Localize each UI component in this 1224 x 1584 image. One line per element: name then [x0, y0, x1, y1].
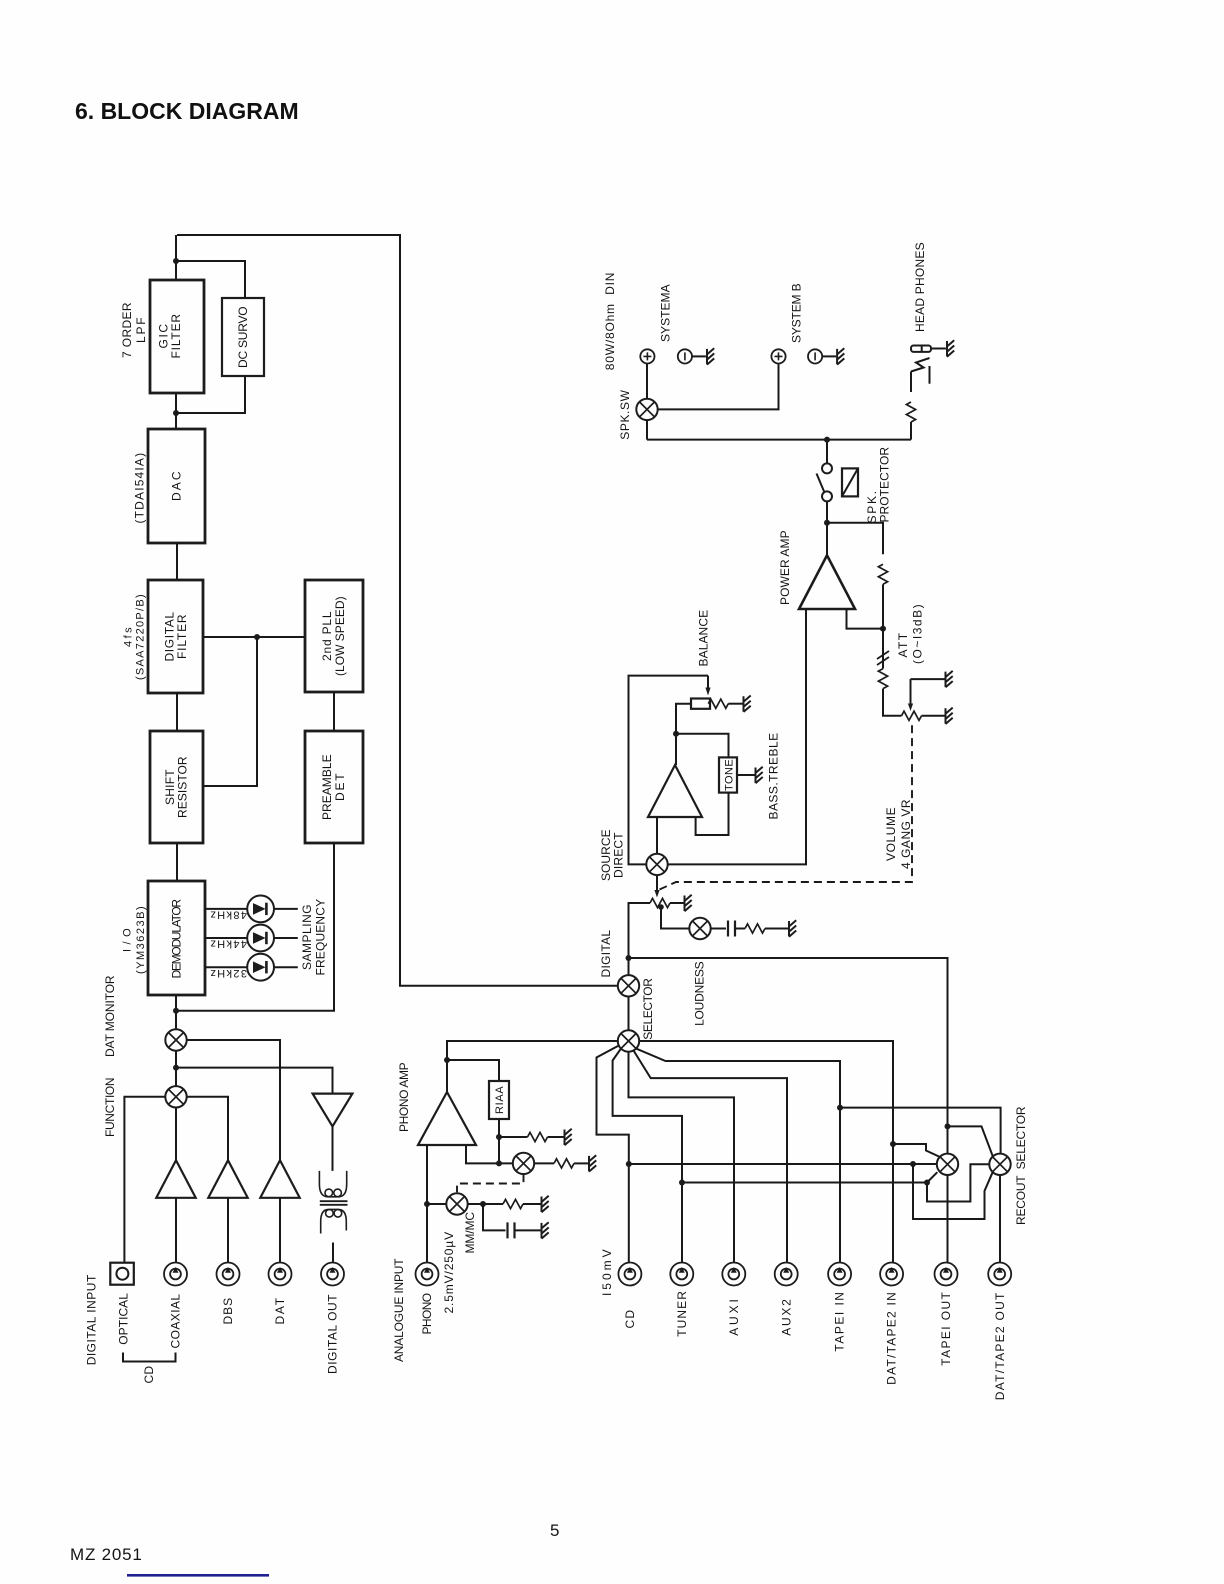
- node relay tap: [824, 437, 830, 443]
- wire 2nd PLL to PREAMBLE DET: [333, 692, 335, 731]
- resistor feedback: [878, 564, 887, 584]
- wire SHIFT RESISTOR to DEMODULATOR: [176, 843, 178, 881]
- wire resistor to speaker bus: [910, 422, 912, 440]
- wire phono amp feedback bottom: [466, 1145, 513, 1163]
- svg-text:OPTICAL: OPTICAL: [116, 1293, 130, 1345]
- wire selector to CD: [597, 1046, 629, 1263]
- ground ATT wiper: [946, 671, 953, 687]
- dashed volume gang link: [660, 725, 913, 889]
- arrow volume wiper: [654, 890, 659, 898]
- ground balance: [744, 696, 751, 712]
- node cd recout tap: [626, 1161, 632, 1167]
- svg-text:80W/8Ohm DIN: 80W/8Ohm DIN: [603, 272, 617, 370]
- svg-text:TAPEI OUT: TAPEI OUT: [939, 1291, 953, 1365]
- jack COAXIAL: [164, 1263, 187, 1286]
- svg-text:BASS.TREBLE: BASS.TREBLE: [767, 733, 781, 820]
- svg-text:CD: CD: [142, 1366, 156, 1384]
- wire balance to tone amp: [676, 704, 691, 765]
- ground ATT pot: [946, 708, 953, 724]
- svg-text:DIGITAL INPUT: DIGITAL INPUT: [84, 1274, 98, 1365]
- blue rule: [127, 1574, 269, 1577]
- ground headphone: [947, 340, 954, 356]
- wire PREAMBLE DET to demodulator node: [176, 843, 334, 1011]
- potentiometer BALANCE body: [691, 699, 710, 709]
- svg-text:DIRECT: DIRECT: [612, 832, 626, 878]
- svg-text:PREAMBLE: PREAMBLE: [320, 754, 334, 820]
- svg-text:4 GANG VR: 4 GANG VR: [899, 799, 913, 869]
- node feedback junction: [496, 1160, 502, 1166]
- svg-text:FILTER: FILTER: [169, 314, 183, 359]
- wire source direct to balance: [629, 676, 709, 865]
- resistor ATT series: [878, 669, 887, 689]
- box DEMODULATOR I/O (YM3623B): [148, 881, 205, 995]
- resistor headphone: [906, 402, 915, 422]
- jack AUX1: [722, 1263, 745, 1286]
- wire tone amp to source direct: [656, 817, 658, 854]
- ground tone: [756, 767, 763, 783]
- wire DIGITAL mixer to SELECTOR: [628, 997, 630, 1031]
- svg-text:RESISTOR: RESISTOR: [176, 756, 190, 818]
- wire tap to RIAA: [447, 1060, 499, 1081]
- jack TAPE1 OUT: [935, 1263, 958, 1286]
- wire GIC FILTER to DAC: [175, 393, 177, 429]
- jack AUX2: [775, 1263, 798, 1286]
- ground volume pot: [685, 895, 692, 911]
- wire contact to resistor: [910, 372, 912, 393]
- node tone box tap: [673, 731, 679, 737]
- terminal SYSTEM A minus: [678, 349, 692, 363]
- svg-text:6. BLOCK DIAGRAM: 6. BLOCK DIAGRAM: [75, 98, 299, 124]
- svg-text:44kHz: 44kHz: [210, 938, 247, 950]
- jack DIGITAL OUT: [321, 1263, 344, 1286]
- box DC SURVO: [222, 298, 264, 376]
- svg-text:2.5mV/250µV: 2.5mV/250µV: [442, 1232, 456, 1314]
- potentiometer BALANCE track: [708, 699, 728, 708]
- wire COAXIAL amp to jack: [175, 1198, 177, 1263]
- svg-text:FUNCTION: FUNCTION: [103, 1077, 117, 1137]
- wire spk.sw down to bus: [646, 420, 648, 440]
- jack DAT/TAPE2 OUT: [988, 1263, 1011, 1286]
- svg-text:5: 5: [550, 1521, 560, 1540]
- svg-text:COAXIAL: COAXIAL: [169, 1294, 183, 1349]
- potentiometer VOLUME track: [650, 898, 670, 907]
- jack PHONO: [416, 1263, 439, 1286]
- svg-text:4fs: 4fs: [123, 627, 135, 647]
- wire to digital-out buffer: [176, 1068, 333, 1094]
- jack DAT: [269, 1263, 292, 1286]
- jack DBS: [217, 1263, 240, 1286]
- mixer DAT MONITOR switch: [165, 1029, 186, 1050]
- wire tap to capacitor: [483, 1204, 506, 1230]
- wire plug to ground: [931, 348, 946, 350]
- mixer SPK.SW: [636, 399, 657, 420]
- node loudness tap: [658, 904, 664, 910]
- connector OPTICAL (square): [110, 1263, 134, 1285]
- headphone jack plug: [911, 346, 931, 352]
- mixer FUNCTION switch: [165, 1086, 186, 1107]
- jack TAPE1 IN: [828, 1263, 851, 1286]
- box PREAMBLE DET: [305, 731, 363, 843]
- amp DIGITAL OUT buffer (inverting orientation): [313, 1094, 353, 1127]
- svg-text:(YM3623B): (YM3623B): [135, 906, 147, 974]
- ground system A: [707, 348, 714, 364]
- svg-text:PROTECTOR: PROTECTOR: [877, 447, 891, 523]
- svg-text:SELECTOR: SELECTOR: [641, 978, 655, 1040]
- wire LED 48kHz: [205, 908, 298, 910]
- svg-text:DAT/TAPE2 IN: DAT/TAPE2 IN: [885, 1292, 899, 1385]
- wire FUNCTION to DBS amp: [187, 1097, 228, 1161]
- arrow balance wiper: [707, 676, 709, 689]
- resistor RIAA feedback: [528, 1132, 548, 1141]
- mixer SELECTOR: [618, 1030, 639, 1051]
- wire cd bypass to mixer2: [913, 1164, 993, 1219]
- wire relay to speaker line: [826, 440, 828, 464]
- node DC-servo tap top: [173, 258, 179, 264]
- wire power amp output up: [826, 502, 828, 556]
- svg-text:(SAA7220P/B): (SAA7220P/B): [135, 594, 147, 680]
- box GIC FILTER (7 order LPF): [150, 280, 204, 393]
- headphone spring contact: [911, 358, 930, 372]
- wire cd tap to recout mixer1: [629, 1163, 937, 1165]
- svg-text:PHONO AMP: PHONO AMP: [397, 1062, 411, 1132]
- wire TONE to ground: [737, 774, 755, 776]
- wire selector to DAT/TAPE2 IN: [639, 1041, 893, 1262]
- wire resistor to ground: [765, 928, 788, 930]
- svg-text:FILTER: FILTER: [175, 614, 189, 659]
- svg-text:TONE: TONE: [723, 759, 735, 791]
- jack CD: [618, 1263, 641, 1286]
- svg-text:DIGITAL: DIGITAL: [599, 930, 613, 978]
- bracket CD group: [123, 1353, 176, 1362]
- box RIAA: [489, 1081, 509, 1119]
- amp DAT input buffer: [260, 1160, 299, 1198]
- node cd bypass tap: [910, 1161, 916, 1167]
- wire SOURCE DIRECT mixer to volume wiper: [656, 875, 658, 891]
- svg-text:LPF: LPF: [134, 317, 148, 343]
- node demodulator output junction: [173, 1008, 179, 1014]
- svg-text:DEMODULATOR: DEMODULATOR: [170, 899, 184, 979]
- mixer LOUDNESS: [689, 918, 710, 939]
- svg-text:DC SURVO: DC SURVO: [236, 306, 250, 368]
- wire A minus to ground: [692, 355, 706, 357]
- svg-text:(O~I3dB): (O~I3dB): [911, 604, 925, 664]
- ATT variable marks: [877, 651, 889, 665]
- amp POWER AMP: [799, 555, 855, 609]
- wire DBS amp to jack: [227, 1198, 229, 1263]
- wire mixer1 to TAPE1 OUT jack: [947, 1175, 949, 1262]
- wire to DC SURVO input: [176, 261, 245, 298]
- wire to ATT resistor: [882, 629, 884, 669]
- wire DAT MONITOR to FUNCTION: [175, 1051, 177, 1086]
- jack TUNER: [670, 1263, 693, 1286]
- wire tuner tap diagonal to mixer1: [927, 1172, 937, 1182]
- ground phono capacitor: [542, 1222, 549, 1238]
- mixer DIGITAL source: [618, 975, 639, 996]
- node selector line tap at recout: [890, 1141, 896, 1147]
- svg-text:7 ORDER: 7 ORDER: [120, 302, 134, 358]
- svg-text:DAT/TAPE2 OUT: DAT/TAPE2 OUT: [993, 1292, 1007, 1400]
- svg-text:LOUDNESS: LOUDNESS: [693, 961, 707, 1026]
- svg-text:SYSTEM B: SYSTEM B: [790, 283, 804, 343]
- wire DAT amp to jack: [279, 1198, 281, 1263]
- node tuner bypass tap: [924, 1180, 930, 1186]
- wire tap to LOUDNESS mixer: [661, 905, 690, 929]
- wire selector to TUNER: [613, 1049, 682, 1263]
- ground gain set: [589, 1155, 596, 1171]
- svg-text:CD: CD: [623, 1310, 637, 1329]
- wire balance to ground: [728, 703, 742, 705]
- wire to feedback resistor: [499, 1136, 528, 1138]
- wire top feedback loop to DIGITAL mixer: [177, 235, 617, 986]
- box DIGITAL FILTER (SAA7220P/B): [148, 580, 203, 693]
- node digital rec tap: [626, 955, 632, 961]
- wire DEMODULATOR output: [175, 995, 177, 1029]
- wire capacitor to resistor: [735, 928, 745, 930]
- wire GIC FILTER top: [175, 235, 177, 280]
- wire RIAA down: [498, 1119, 500, 1163]
- potentiometer ATT track: [902, 711, 922, 720]
- svg-text:SPK.SW: SPK.SW: [618, 389, 632, 439]
- wire pot to ground: [670, 902, 684, 904]
- wire upper tap to mixer2: [948, 1126, 993, 1156]
- node recout mixer2 upper tap: [945, 1123, 951, 1129]
- wire MM/MC mixer to load: [468, 1203, 503, 1205]
- wire selector to TAPE1 IN: [636, 1049, 840, 1263]
- wire mixer2 to DAT/TAPE2 OUT jack: [999, 1175, 1001, 1262]
- wire PLL tap to SHIFT RESISTOR: [203, 637, 257, 786]
- box DAC (TDAI541A): [148, 429, 205, 543]
- wire DIGITAL FILTER to SHIFT RESISTOR: [176, 693, 178, 731]
- svg-text:TAPEI IN: TAPEI IN: [833, 1292, 847, 1352]
- svg-text:AUX2: AUX2: [779, 1299, 793, 1336]
- wire tap to recout mixer1: [893, 1144, 940, 1157]
- wire resistor to ground: [523, 1203, 541, 1205]
- wire feedback to power amp inverting input: [847, 609, 884, 629]
- svg-text:DIGITAL OUT: DIGITAL OUT: [326, 1294, 340, 1374]
- LED 32kHz: [247, 954, 274, 981]
- wire selector to AUX1: [629, 1052, 735, 1263]
- resistor phono load: [503, 1199, 523, 1208]
- svg-text:BALANCE: BALANCE: [697, 610, 711, 667]
- wire gain mixer to resistor: [534, 1162, 554, 1164]
- wire tuner bypass to mixer2: [927, 1164, 989, 1201]
- box TONE: [719, 757, 737, 792]
- svg-text:RECOUT SELECTOR: RECOUT SELECTOR: [1014, 1106, 1028, 1225]
- svg-text:ATT: ATT: [896, 632, 910, 657]
- wire DIGITAL FILTER to 2nd PLL: [203, 636, 305, 638]
- mixer SOURCE DIRECT: [646, 854, 667, 875]
- wire spk.sw to system A +: [646, 364, 648, 399]
- svg-text:32kHz: 32kHz: [210, 967, 247, 979]
- node DC-servo tap bottom: [173, 410, 179, 416]
- wire feedback resistor down: [882, 584, 884, 628]
- amp COAXIAL input buffer: [156, 1160, 195, 1198]
- svg-text:HEAD PHONES: HEAD PHONES: [913, 242, 927, 332]
- capacitor loudness: [728, 921, 735, 937]
- mixer gain select: [513, 1153, 534, 1174]
- wire phono amp output to selector: [447, 1041, 617, 1092]
- svg-text:VOLUME: VOLUME: [884, 807, 898, 861]
- svg-text:PHONO: PHONO: [420, 1293, 434, 1335]
- node phono load tap: [480, 1201, 486, 1207]
- box 2nd PLL (LOW SPEED): [305, 580, 363, 692]
- wire speaker bus: [647, 439, 911, 441]
- terminal SYSTEM A plus: [640, 349, 654, 363]
- node MM/MC tap: [424, 1201, 430, 1207]
- svg-text:SYSTEMA: SYSTEMA: [658, 284, 672, 342]
- svg-text:POWER AMP: POWER AMP: [778, 530, 792, 605]
- dashed gang link gain/MM-MC: [457, 1174, 524, 1192]
- wire DIGITAL mixer up to volume pot: [629, 903, 651, 975]
- amp DBS input buffer: [208, 1160, 247, 1198]
- terminal SYSTEM B minus: [808, 349, 822, 363]
- wire B minus to ground: [822, 355, 836, 357]
- LED 44kHz: [247, 925, 274, 952]
- relay arm: [817, 474, 825, 493]
- wire digital rec line to recout mixer1: [629, 958, 948, 1154]
- node tuner recout tap: [679, 1180, 685, 1186]
- arrow ATT wiper: [910, 679, 912, 704]
- amp PHONO AMP: [418, 1092, 476, 1145]
- amp TONE CONTROL: [648, 765, 702, 817]
- transformer T1 digital out: [319, 1171, 347, 1234]
- wire feedback from output: [827, 523, 883, 555]
- wire transformer to DIGITAL OUT jack: [332, 1243, 334, 1263]
- svg-text:MM/MC: MM/MC: [463, 1212, 477, 1254]
- node tape1-in recout tap: [837, 1105, 843, 1111]
- box SHIFT RESISTOR: [150, 731, 203, 843]
- svg-text:ANALOGUE INPUT: ANALOGUE INPUT: [392, 1258, 406, 1362]
- wire tuner tap to recout mixers: [682, 1182, 927, 1184]
- node power amp output: [824, 520, 830, 526]
- wire DAT MONITOR to DAT amp: [187, 1040, 280, 1160]
- box SPK PROTECTOR relay: [842, 468, 858, 496]
- capacitor phono input: [508, 1222, 515, 1238]
- wire buffer to transformer: [332, 1126, 334, 1171]
- svg-text:(LOW SPEED): (LOW SPEED): [333, 596, 347, 676]
- ground system B: [837, 348, 844, 364]
- wire ATT pot to ground: [922, 715, 945, 717]
- wire PHONO jack to amp input: [426, 1145, 428, 1262]
- terminal SYSTEM B plus: [771, 349, 785, 363]
- mixer RECOUT 1 (TAPE1 OUT): [937, 1154, 958, 1175]
- svg-text:TUNER: TUNER: [675, 1291, 689, 1337]
- wire recout feed to mixer2: [840, 1108, 1001, 1154]
- wire to ground: [574, 1162, 588, 1164]
- wire ATT resistor to pot: [883, 689, 902, 716]
- wire selector to AUX2: [633, 1050, 787, 1262]
- wire FUNCTION to COAXIAL amp: [175, 1108, 177, 1161]
- svg-text:DAC: DAC: [170, 471, 184, 501]
- svg-text:RIAA: RIAA: [494, 1086, 506, 1114]
- svg-text:SAMPLING: SAMPLING: [300, 904, 314, 970]
- node RIAA tap: [444, 1057, 450, 1063]
- ground phono load: [542, 1196, 549, 1212]
- wire DAC to DIGITAL FILTER: [176, 543, 178, 580]
- ground loudness: [789, 920, 796, 936]
- node RIAA resistor tap: [496, 1134, 502, 1140]
- svg-text:DET: DET: [333, 773, 347, 801]
- wire FUNCTION to OPTICAL: [124, 1097, 165, 1263]
- wire LED 32kHz: [205, 966, 298, 968]
- wire spk.sw to system B +: [658, 364, 779, 410]
- LED 48kHz: [247, 896, 274, 923]
- svg-text:2nd PLL: 2nd PLL: [320, 611, 334, 661]
- node feedback junction: [880, 626, 886, 632]
- wire source direct to tone amp out: [668, 609, 806, 864]
- svg-text:DAT MONITOR: DAT MONITOR: [103, 975, 117, 1057]
- jack DAT/TAPE2 IN: [880, 1263, 903, 1286]
- node PLL tap: [254, 634, 260, 640]
- wire tap to TONE box: [676, 734, 729, 758]
- svg-text:FREQUENCY: FREQUENCY: [314, 899, 328, 976]
- svg-text:MZ 2051: MZ 2051: [70, 1545, 143, 1564]
- ground RIAA feedback: [565, 1129, 572, 1145]
- wire capacitor to ground: [515, 1229, 541, 1231]
- mixer RECOUT 2 (DAT/TAPE2 OUT): [989, 1154, 1010, 1175]
- svg-text:(TDAI54IA): (TDAI54IA): [133, 453, 147, 524]
- wire ATT wiper to ground: [911, 678, 945, 680]
- wire node to MM/MC mixer: [427, 1203, 446, 1205]
- svg-text:DBS: DBS: [221, 1298, 235, 1325]
- svg-text:DAT: DAT: [273, 1297, 287, 1324]
- resistor gain set: [554, 1159, 574, 1168]
- mixer MM/MC select: [446, 1193, 467, 1214]
- wire LED 44kHz: [205, 937, 298, 939]
- wire from DC SURVO output: [176, 376, 245, 413]
- svg-text:48kHz: 48kHz: [210, 909, 247, 921]
- wire tone feedback to TONE box: [696, 793, 729, 835]
- resistor loudness: [745, 924, 765, 933]
- node function tap: [173, 1065, 179, 1071]
- relay contact SPK protector: [822, 463, 832, 473]
- wire loudness mixer to capacitor: [711, 928, 726, 930]
- wire to ground: [548, 1136, 564, 1138]
